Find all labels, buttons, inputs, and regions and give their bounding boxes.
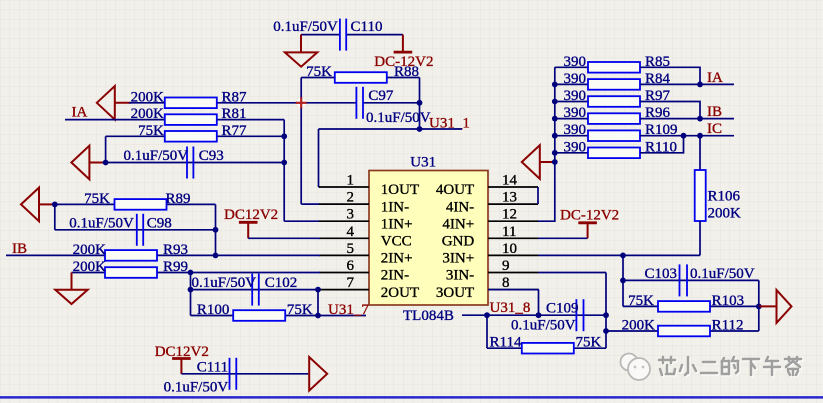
wire <box>699 136 701 170</box>
svg-text:C98: C98 <box>147 215 172 231</box>
svg-text:2OUT: 2OUT <box>381 285 419 301</box>
wire <box>640 118 734 120</box>
svg-text:C97: C97 <box>368 88 394 104</box>
wire <box>640 102 700 119</box>
svg-text:IB: IB <box>707 104 722 120</box>
power port arrow (net of R87 top-left) <box>97 86 115 120</box>
svg-text:R88: R88 <box>394 64 419 80</box>
wire <box>606 330 759 332</box>
wire <box>129 102 355 104</box>
pin 6 <box>319 272 369 274</box>
junction <box>620 278 626 284</box>
power port arrow (390 bus) <box>522 145 540 179</box>
op-amp U31 body <box>369 171 488 306</box>
svg-text:R77: R77 <box>222 123 248 139</box>
svg-text:C110: C110 <box>351 19 383 35</box>
pin 12 <box>488 220 538 222</box>
junction <box>188 287 194 293</box>
wire <box>538 254 700 256</box>
power port arrow (C111 right) <box>309 357 327 391</box>
resistor R114 <box>522 343 574 354</box>
svg-text:2: 2 <box>347 190 355 206</box>
pin 10 <box>488 254 538 256</box>
wire <box>623 305 759 307</box>
svg-text:200K: 200K <box>708 206 742 222</box>
wire <box>319 128 463 130</box>
svg-text:VCC: VCC <box>381 234 412 250</box>
wire <box>488 289 539 291</box>
svg-text:4: 4 <box>347 224 355 240</box>
junction <box>697 133 703 139</box>
svg-text:R106: R106 <box>708 189 741 205</box>
wire <box>538 290 540 316</box>
capacitor C97 <box>355 87 357 119</box>
svg-text:75K: 75K <box>287 302 313 318</box>
wire <box>191 289 321 291</box>
resistor R99 <box>105 267 157 278</box>
svg-text:U31_8: U31_8 <box>490 300 531 316</box>
junction <box>681 133 687 139</box>
resistor R84 <box>555 83 588 85</box>
svg-text:3IN-: 3IN- <box>446 268 474 284</box>
wire <box>623 279 759 281</box>
wire <box>537 187 539 204</box>
svg-text:R89: R89 <box>166 191 191 207</box>
wire <box>640 136 684 153</box>
junction <box>697 116 703 122</box>
resistor R88 <box>335 72 387 83</box>
capacitor C103 <box>679 264 681 296</box>
wire <box>640 83 734 85</box>
svg-text:7: 7 <box>347 275 355 291</box>
wire <box>248 237 320 239</box>
resistor R93 <box>105 250 157 261</box>
svg-text:2IN+: 2IN+ <box>381 251 413 267</box>
svg-text:0.1uF/50V: 0.1uF/50V <box>366 110 431 126</box>
svg-text:14: 14 <box>502 173 518 189</box>
wire <box>487 347 606 349</box>
junction <box>536 312 542 318</box>
svg-text:5: 5 <box>347 241 355 257</box>
svg-text:DC-12V2: DC-12V2 <box>560 208 619 224</box>
wire <box>419 78 421 130</box>
wire <box>538 272 606 274</box>
pin 13 <box>488 203 538 205</box>
wire <box>106 135 285 137</box>
svg-text:390: 390 <box>564 139 587 155</box>
wire <box>55 203 216 205</box>
junction <box>756 304 762 310</box>
svg-text:200K: 200K <box>131 89 165 105</box>
svg-text:75K: 75K <box>138 123 164 139</box>
resistor R97 <box>555 101 588 103</box>
svg-text:9: 9 <box>502 258 510 274</box>
svg-text:8: 8 <box>502 275 510 291</box>
junction <box>213 253 219 259</box>
junction <box>603 312 609 318</box>
wire <box>319 186 321 188</box>
junction <box>552 99 558 105</box>
svg-text:C93: C93 <box>199 148 224 164</box>
junction <box>417 100 423 106</box>
wire <box>462 314 606 316</box>
svg-text:75K: 75K <box>576 335 602 351</box>
wire <box>54 204 56 229</box>
wire <box>181 373 308 375</box>
wire <box>758 306 760 331</box>
svg-text:R99: R99 <box>163 259 188 275</box>
capacitor C110 <box>301 34 340 36</box>
wire <box>486 315 488 348</box>
svg-text:200K: 200K <box>622 318 656 334</box>
no-ERC cross marker <box>297 98 306 107</box>
capacitor C98 <box>136 214 138 246</box>
power port arrow (R103 output) <box>759 305 777 307</box>
sheet border (bottom) <box>0 396 823 399</box>
wire <box>283 120 285 222</box>
svg-text:C111: C111 <box>197 359 228 375</box>
watermark text <box>660 358 802 376</box>
resistor R106 <box>695 170 706 221</box>
junction <box>603 328 609 334</box>
wire <box>758 280 760 306</box>
svg-text:IC: IC <box>707 121 722 137</box>
svg-text:1: 1 <box>347 173 355 189</box>
resistor R109 <box>555 135 588 137</box>
pin 11 <box>488 237 538 239</box>
junction <box>484 312 490 318</box>
svg-text:R114: R114 <box>490 335 522 351</box>
wire <box>318 129 320 187</box>
svg-text:0.1uF/50V: 0.1uF/50V <box>690 266 755 282</box>
wire <box>640 67 700 84</box>
power port DC-12V2 (top) <box>402 35 404 52</box>
svg-text:390: 390 <box>564 54 587 70</box>
wire <box>317 290 319 316</box>
svg-text:R87: R87 <box>222 89 248 105</box>
pin 8 <box>488 289 538 291</box>
pin 4 <box>319 237 369 239</box>
ground <box>71 273 73 290</box>
svg-text:IA: IA <box>707 70 723 86</box>
svg-text:13: 13 <box>502 190 517 206</box>
junction <box>552 150 558 156</box>
wire <box>191 315 367 317</box>
svg-text:11: 11 <box>502 224 516 240</box>
junction <box>52 202 58 208</box>
wire <box>6 254 320 256</box>
svg-text:12: 12 <box>502 207 517 223</box>
resistor R112 <box>658 326 710 337</box>
svg-text:IA: IA <box>72 104 88 120</box>
resistor R81 <box>165 114 217 125</box>
svg-text:R93: R93 <box>163 242 188 258</box>
junction <box>552 116 558 122</box>
resistor R103 <box>658 301 710 312</box>
svg-text:0.1uF/50V: 0.1uF/50V <box>273 19 338 35</box>
svg-text:R81: R81 <box>222 106 247 122</box>
svg-text:GND: GND <box>442 234 475 250</box>
wire <box>355 102 357 104</box>
svg-text:0.1uF/50V: 0.1uF/50V <box>192 275 257 291</box>
junction <box>315 313 321 319</box>
ground <box>300 35 302 53</box>
pin 5 <box>319 254 369 256</box>
junction <box>620 253 626 259</box>
watermark logo <box>621 354 651 381</box>
wire <box>622 255 624 306</box>
svg-text:3OUT: 3OUT <box>436 285 474 301</box>
junction <box>315 287 321 293</box>
junction <box>281 160 287 166</box>
svg-text:3: 3 <box>347 207 355 223</box>
capacitor C102 <box>251 274 253 306</box>
svg-text:200K: 200K <box>131 106 165 122</box>
wire <box>605 273 607 349</box>
junction <box>552 159 558 165</box>
svg-text:1OUT: 1OUT <box>381 182 419 198</box>
wire <box>284 220 320 222</box>
pin 1 <box>319 186 369 188</box>
capacitor C93 <box>186 147 188 179</box>
svg-text:TL084B: TL084B <box>403 308 454 324</box>
wire <box>65 119 284 121</box>
wire <box>301 77 419 79</box>
wire <box>215 204 217 255</box>
svg-text:3IN+: 3IN+ <box>442 251 474 267</box>
svg-text:4OUT: 4OUT <box>436 182 474 198</box>
pin 2 <box>319 203 369 205</box>
svg-text:390: 390 <box>564 88 587 104</box>
svg-text:200K: 200K <box>73 259 107 275</box>
junction <box>697 82 703 88</box>
svg-text:0.1uF/50V: 0.1uF/50V <box>124 148 189 164</box>
svg-text:1IN+: 1IN+ <box>381 216 413 232</box>
junction <box>552 133 558 139</box>
svg-text:DC12V2: DC12V2 <box>224 207 278 223</box>
wire <box>538 67 555 221</box>
resistor R87 <box>165 98 217 109</box>
power port arrow (R89 row) <box>21 188 39 222</box>
wire <box>106 162 285 164</box>
svg-text:0.1uF/50V: 0.1uF/50V <box>69 215 134 231</box>
svg-text:0.1uF/50V: 0.1uF/50V <box>164 380 229 396</box>
svg-text:0.1uF/50V: 0.1uF/50V <box>511 318 576 334</box>
svg-text:200K: 200K <box>73 242 107 258</box>
svg-text:4IN-: 4IN- <box>446 199 474 215</box>
resistor R96 <box>555 118 588 120</box>
svg-text:1IN-: 1IN- <box>381 199 409 215</box>
svg-text:C102: C102 <box>265 275 298 291</box>
pin 14 <box>488 186 538 188</box>
wire <box>538 237 588 239</box>
svg-text:U31_7: U31_7 <box>328 302 369 318</box>
wire <box>55 229 216 231</box>
svg-text:C103: C103 <box>644 266 677 282</box>
power port arrow (C93 row) <box>71 146 89 180</box>
junction <box>213 227 219 233</box>
svg-text:75K: 75K <box>306 64 332 80</box>
svg-text:4IN+: 4IN+ <box>442 216 474 232</box>
pin 3 <box>319 220 369 222</box>
svg-text:390: 390 <box>564 105 587 121</box>
capacitor C109 <box>575 299 577 331</box>
resistor R85 <box>555 66 588 68</box>
pin 7 <box>319 289 369 291</box>
junction <box>103 160 109 166</box>
svg-text:R100: R100 <box>197 302 230 318</box>
svg-text:2IN-: 2IN- <box>381 268 409 284</box>
wire <box>301 203 320 205</box>
wire <box>72 272 321 274</box>
capacitor C111 <box>229 358 231 390</box>
resistor R77 <box>165 131 217 142</box>
wire <box>699 221 701 255</box>
svg-text:6: 6 <box>347 258 355 274</box>
junction <box>552 82 558 88</box>
svg-text:10: 10 <box>502 241 517 257</box>
junction <box>281 133 287 139</box>
wire <box>190 273 192 316</box>
resistor R89 <box>115 199 167 210</box>
svg-text:390: 390 <box>564 122 587 138</box>
svg-text:75K: 75K <box>84 191 110 207</box>
svg-text:R103: R103 <box>712 293 745 309</box>
svg-text:U31: U31 <box>410 155 436 171</box>
wire <box>300 78 302 205</box>
resistor R110 <box>555 152 588 154</box>
junction <box>417 126 423 132</box>
resistor R100 <box>233 310 285 321</box>
wire <box>640 135 734 137</box>
svg-text:390: 390 <box>564 71 587 87</box>
svg-text:75K: 75K <box>628 293 654 309</box>
junction <box>188 270 194 276</box>
svg-text:C109: C109 <box>546 301 579 317</box>
pin 9 <box>488 272 538 274</box>
svg-text:R112: R112 <box>712 318 744 334</box>
wire <box>105 136 107 162</box>
